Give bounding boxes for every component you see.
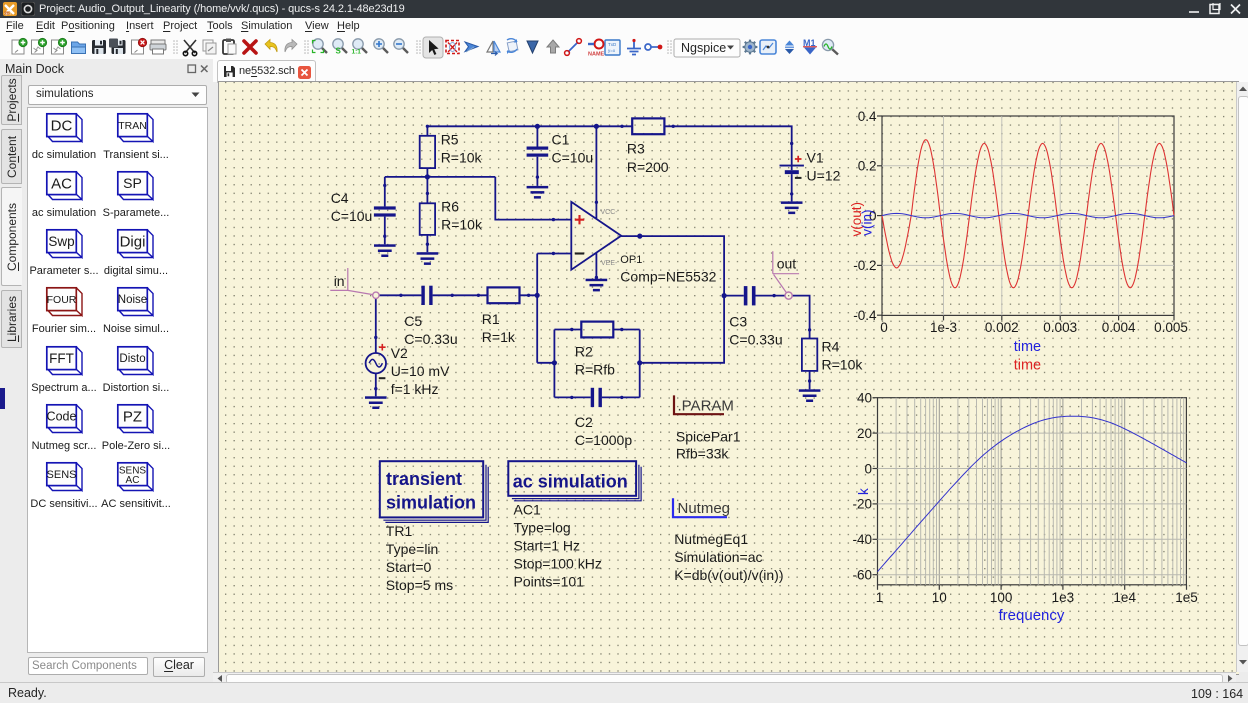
wire: inverting node to feedback network left xyxy=(537,362,554,364)
svg-text:C1: C1 xyxy=(552,132,570,148)
label R3 value xyxy=(627,140,669,175)
plot 1 y-axis label v(out) xyxy=(849,202,864,237)
plot 2 x-axis label frequency xyxy=(999,607,1065,624)
ground under C1 xyxy=(527,186,549,199)
capacitor C1 xyxy=(527,126,549,186)
V2 minus sign xyxy=(379,377,386,379)
svg-text:1e3: 1e3 xyxy=(1052,590,1075,605)
svg-text:k: k xyxy=(856,488,871,495)
svg-text:-20: -20 xyxy=(852,497,872,512)
wire: input node to C5 xyxy=(379,294,421,296)
ground under V2 xyxy=(365,396,387,409)
wire: VEE pin to ground xyxy=(595,253,597,279)
label R6 value xyxy=(441,198,483,232)
svg-text:R=1k: R=1k xyxy=(482,329,516,345)
svg-text:Disto: Disto xyxy=(119,353,145,365)
svg-text:Nutmeg scr...: Nutmeg scr... xyxy=(32,440,97,452)
svg-text:R=200: R=200 xyxy=(627,159,669,175)
svg-text:SP: SP xyxy=(123,175,142,191)
svg-text:R=10k: R=10k xyxy=(441,150,483,166)
svg-text:V2: V2 xyxy=(391,345,408,361)
wire: top rail R3 to V1 with corner down xyxy=(664,126,791,165)
label OP1 xyxy=(620,254,716,285)
svg-text:100: 100 xyxy=(990,590,1013,605)
wire: output node to C3 xyxy=(724,295,744,297)
wire: out node to R4 xyxy=(792,296,809,339)
svg-text:Rfb=33k: Rfb=33k xyxy=(676,446,730,462)
ground under R4 xyxy=(799,389,821,402)
svg-text:S-paramete...: S-paramete... xyxy=(103,207,170,219)
svg-text:C4: C4 xyxy=(331,190,349,206)
svg-text:-60: -60 xyxy=(852,568,872,583)
label V2 value xyxy=(391,345,450,397)
svg-text:Parameter s...: Parameter s... xyxy=(29,265,98,277)
svg-text:0.002: 0.002 xyxy=(985,320,1019,335)
svg-text:C=0.33u: C=0.33u xyxy=(404,331,457,347)
svg-text:Code: Code xyxy=(47,410,77,424)
svg-text:Points=101: Points=101 xyxy=(514,574,585,590)
svg-text:U=10 mV: U=10 mV xyxy=(391,363,450,379)
resistor R6 xyxy=(420,177,435,252)
wire: C5 to R1 xyxy=(433,294,488,296)
V1 minus sign xyxy=(795,177,802,179)
svg-text:1e5: 1e5 xyxy=(1175,590,1198,605)
svg-text:-40: -40 xyxy=(852,532,872,547)
plot 1 y-axis label v(in) xyxy=(860,210,875,236)
svg-text:10: 10 xyxy=(932,590,947,605)
wire: to op-amp non-inverting input xyxy=(495,177,571,220)
wire: R1 to inverting node xyxy=(520,294,538,296)
svg-text:AC sensitivit...: AC sensitivit... xyxy=(101,498,171,510)
svg-text:0.005: 0.005 xyxy=(1154,320,1188,335)
svg-text:Swp: Swp xyxy=(48,234,74,249)
AC1 parameters xyxy=(514,502,602,590)
svg-text:out: out xyxy=(777,256,797,272)
svg-text:FOUR: FOUR xyxy=(47,294,77,306)
label C1 value xyxy=(552,132,594,166)
svg-text:R=Rfb: R=Rfb xyxy=(575,362,615,378)
wire: top supply rail (R5 top to R3) xyxy=(427,125,632,127)
svg-text:qucs: qucs xyxy=(5,11,12,15)
plot 2 frame and log grid xyxy=(852,391,1197,605)
svg-text:NutmegEq1: NutmegEq1 xyxy=(674,531,748,547)
plot 1 blue curve v(in) xyxy=(882,213,1174,217)
TR1 parameters xyxy=(386,523,453,593)
ground under V1 xyxy=(781,201,803,214)
wire: VCC supply into op-amp xyxy=(595,126,597,218)
pin connection dots xyxy=(374,125,811,399)
svg-text:digital simu...: digital simu... xyxy=(104,265,168,277)
label C5 value xyxy=(404,313,457,347)
svg-text:in: in xyxy=(334,273,345,289)
svg-text:simulation: simulation xyxy=(386,493,476,513)
svg-text:Fourier sim...: Fourier sim... xyxy=(32,323,96,335)
svg-text:TRAN: TRAN xyxy=(118,120,147,132)
svg-text:AC: AC xyxy=(51,175,72,192)
svg-text:Type=lin: Type=lin xyxy=(386,541,439,557)
voltage source V1 battery xyxy=(780,165,804,202)
svg-text:0.4: 0.4 xyxy=(858,109,877,124)
svg-text:SENS: SENS xyxy=(47,469,77,481)
svg-text:OP1: OP1 xyxy=(620,254,642,266)
op-amp OP1 xyxy=(571,202,621,270)
svg-text:R4: R4 xyxy=(822,338,840,354)
svg-text:Start=1 Hz: Start=1 Hz xyxy=(514,538,581,554)
svg-text:C2: C2 xyxy=(575,414,593,430)
svg-text:ac simulation: ac simulation xyxy=(32,207,96,219)
resistor R1 xyxy=(488,287,520,303)
resistor R5 xyxy=(420,126,435,177)
svg-text:Noise: Noise xyxy=(118,294,147,306)
svg-text:0: 0 xyxy=(864,461,872,476)
OP1 plus input marker xyxy=(575,215,584,224)
svg-text:Transient si...: Transient si... xyxy=(103,149,169,161)
svg-text:C=10u: C=10u xyxy=(552,150,594,166)
svg-text:.PARAM: .PARAM xyxy=(678,397,734,414)
svg-text:Stop=100 kHz: Stop=100 kHz xyxy=(514,556,602,572)
svg-text:ac simulation: ac simulation xyxy=(513,472,628,492)
ground under R6 xyxy=(417,252,439,265)
OP1 minus input marker xyxy=(575,252,584,254)
svg-text:v(in): v(in) xyxy=(860,210,875,236)
.PARAM SpicePar1 block xyxy=(674,395,734,414)
resistor R2 xyxy=(554,322,639,338)
svg-text:C=10u: C=10u xyxy=(331,208,373,224)
svg-text:20: 20 xyxy=(857,426,872,441)
svg-text:0.004: 0.004 xyxy=(1102,320,1136,335)
resistor R3 xyxy=(632,118,664,134)
wire: R5 bottom horizontal bus (C4 node to feed corner) xyxy=(385,176,496,178)
SpicePar1 parameters xyxy=(676,429,741,462)
plot 1 red curve v(out) xyxy=(882,140,1174,288)
wire: feedback network right vertical xyxy=(639,330,641,398)
svg-text:Nutmeg: Nutmeg xyxy=(678,500,731,517)
svg-text:DC: DC xyxy=(51,117,73,134)
svg-text:time: time xyxy=(1014,339,1041,355)
plot 2 y-axis label k xyxy=(856,488,871,495)
svg-text:C=0.33u: C=0.33u xyxy=(729,331,782,347)
svg-text:R6: R6 xyxy=(441,198,459,214)
capacitor C4 xyxy=(374,177,396,244)
svg-text:1:1: 1:1 xyxy=(352,49,362,56)
svg-text:U=12: U=12 xyxy=(807,167,841,183)
V2 plus sign xyxy=(379,344,386,351)
resistor R4 xyxy=(802,339,817,390)
svg-text:R=10k: R=10k xyxy=(822,356,864,372)
Nutmeg equation block xyxy=(673,498,730,517)
svg-text:Pole-Zero si...: Pole-Zero si... xyxy=(102,440,170,452)
svg-text:C=1000p: C=1000p xyxy=(575,432,632,448)
svg-text:y=x: y=x xyxy=(608,48,616,53)
label R2 value xyxy=(575,344,615,378)
label R4 value xyxy=(822,338,864,372)
svg-text:1e4: 1e4 xyxy=(1113,590,1136,605)
OP1 VEE pin label xyxy=(601,260,618,267)
NutmegEq1 parameters xyxy=(674,531,783,583)
capacitor C3 xyxy=(744,286,756,305)
label R1 value xyxy=(482,311,516,345)
wire: feedback network left vertical xyxy=(553,330,555,398)
svg-text:0.2: 0.2 xyxy=(858,159,877,174)
plot 1 frame and axes xyxy=(853,109,1188,335)
search row xyxy=(28,657,148,675)
svg-text:0.003: 0.003 xyxy=(1043,320,1077,335)
white component list xyxy=(27,107,208,653)
svg-text:R=10k: R=10k xyxy=(441,216,483,232)
plot 1 x-axis label time (blue) xyxy=(1014,339,1041,355)
svg-text:Distortion si...: Distortion si... xyxy=(103,382,170,394)
svg-text:V1: V1 xyxy=(807,149,824,165)
svg-text:Noise simul...: Noise simul... xyxy=(103,323,169,335)
svg-text:K=db(v(out)/v(in)): K=db(v(out)/v(in)) xyxy=(674,567,783,583)
svg-text:0: 0 xyxy=(880,320,888,335)
wire: feedback to op-amp output xyxy=(621,236,724,363)
svg-text:R2: R2 xyxy=(575,344,593,360)
junction dots xyxy=(425,124,727,366)
wire: C3 to out port node xyxy=(756,295,786,297)
svg-text:S: S xyxy=(336,47,342,56)
svg-text:1e-3: 1e-3 xyxy=(930,320,957,335)
label V1 value xyxy=(807,149,841,183)
voltage source V2 xyxy=(366,353,386,396)
OP1 VCC pin label xyxy=(601,209,619,216)
svg-text:TR1: TR1 xyxy=(386,523,413,539)
blue stripe artifact xyxy=(0,388,5,409)
capacitor C2 xyxy=(554,388,639,407)
svg-text:R3: R3 xyxy=(627,140,645,156)
svg-text:R5: R5 xyxy=(441,132,459,148)
svg-text:C5: C5 xyxy=(404,313,422,329)
svg-text:f=1 kHz: f=1 kHz xyxy=(391,381,439,397)
svg-text:DC sensitivi...: DC sensitivi... xyxy=(30,498,97,510)
plot 1 x-axis label time (red) xyxy=(1014,357,1041,373)
svg-text:C3: C3 xyxy=(729,313,747,329)
svg-text:Type=log: Type=log xyxy=(514,520,571,536)
svg-text:40: 40 xyxy=(857,391,872,406)
svg-text:SpicePar1: SpicePar1 xyxy=(676,429,741,445)
svg-text:dc simulation: dc simulation xyxy=(32,149,96,161)
label R5 value xyxy=(441,132,483,166)
svg-text:Stop=5 ms: Stop=5 ms xyxy=(386,577,453,593)
svg-text:R1: R1 xyxy=(482,311,500,327)
simulation box: ac simulation AC1 xyxy=(508,461,641,501)
ground under C4 xyxy=(374,244,396,257)
plot 2 blue gain curve K xyxy=(878,416,1187,572)
capacitor C5 xyxy=(421,286,432,305)
svg-text:-0.4: -0.4 xyxy=(853,308,877,323)
svg-text:TxD: TxD xyxy=(608,42,617,47)
svg-text:Ngspice: Ngspice xyxy=(681,41,726,55)
svg-text:time: time xyxy=(1014,357,1041,373)
wire: to op-amp inverting input xyxy=(537,253,571,255)
combo box: simulations xyxy=(28,85,207,105)
wire: input port down to V2 xyxy=(375,298,377,353)
simulation box: transient simulation TR1 xyxy=(380,461,488,522)
svg-text:Simulation=ac: Simulation=ac xyxy=(674,549,762,565)
label C4 value xyxy=(331,190,373,224)
svg-text:frequency: frequency xyxy=(999,607,1065,624)
svg-text:AC1: AC1 xyxy=(514,502,541,518)
svg-text:FFT: FFT xyxy=(49,351,74,366)
svg-text:Start=0: Start=0 xyxy=(386,559,432,575)
svg-text:VEE-: VEE- xyxy=(601,260,618,267)
svg-text:transient: transient xyxy=(386,469,462,489)
vertical tab strip xyxy=(1,75,22,125)
svg-text:1: 1 xyxy=(876,590,884,605)
svg-text:-0.2: -0.2 xyxy=(853,258,876,273)
port label "in" xyxy=(330,268,379,298)
label C3 value xyxy=(729,313,782,347)
svg-text:NAME: NAME xyxy=(588,52,605,58)
port label "out" xyxy=(773,251,799,299)
svg-text:PZ: PZ xyxy=(123,408,142,425)
svg-text:AC: AC xyxy=(126,475,140,486)
wire: inverting input branch vertical xyxy=(536,254,538,363)
svg-text:Comp=NE5532: Comp=NE5532 xyxy=(620,268,716,284)
svg-text:Digi: Digi xyxy=(120,233,146,250)
V1 plus sign xyxy=(795,156,802,163)
ground under op-amp VEE xyxy=(586,279,608,292)
svg-text:VCC-: VCC- xyxy=(601,209,619,216)
label C2 value xyxy=(575,414,632,448)
svg-text:Spectrum a...: Spectrum a... xyxy=(31,382,96,394)
